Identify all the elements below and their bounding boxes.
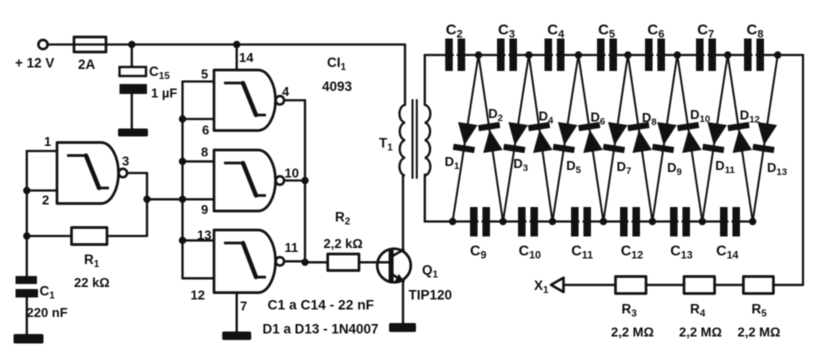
op-amp U1a oscillator NAND gate xyxy=(57,143,118,204)
resistor R2 xyxy=(328,254,359,271)
wire pin 2 xyxy=(27,189,57,191)
op-amp U1d buffer NAND gate pins 13,12 -> 11 xyxy=(214,230,276,293)
capacitor C15 (electrolytic) xyxy=(120,67,147,76)
wire R3 to R4 xyxy=(646,284,684,286)
capacitor C12 xyxy=(620,207,628,237)
svg-text:8: 8 xyxy=(201,145,208,160)
wire to R2 xyxy=(305,261,328,263)
node osc output branch xyxy=(143,196,150,203)
transformer T1 primary winding xyxy=(399,105,405,176)
resistor R3 xyxy=(616,277,647,294)
transformer T1 core xyxy=(411,100,413,178)
wire right edge vertical xyxy=(802,55,804,285)
diode D6 xyxy=(578,122,604,153)
capacitor C14 xyxy=(720,207,728,237)
svg-text:6: 6 xyxy=(202,123,209,138)
wire rail down to T1 primary xyxy=(404,45,406,106)
node pin13 xyxy=(179,237,186,244)
wire bottom rail segment 1 xyxy=(453,220,478,222)
capacitor C3 xyxy=(497,39,505,72)
wire pin 13 xyxy=(183,239,215,241)
diode D7 xyxy=(603,122,629,153)
svg-text:2A: 2A xyxy=(78,57,96,72)
node pin6 xyxy=(179,115,186,122)
diode D11 xyxy=(702,122,728,153)
wire R4 to R5 xyxy=(715,284,744,286)
wire Q1 collector to T1 xyxy=(402,176,404,250)
wire pin 14 supply xyxy=(236,45,238,71)
svg-text:10: 10 xyxy=(285,166,299,181)
capacitor C11 xyxy=(571,207,579,237)
capacitor C10 xyxy=(518,207,526,237)
ground Q1 xyxy=(389,323,416,332)
diode D9 xyxy=(652,122,678,153)
wire R1 to output node xyxy=(107,235,147,237)
wire top rail segment 1 xyxy=(447,54,453,56)
svg-text:2,2 MΩ: 2,2 MΩ xyxy=(679,325,722,340)
wire diagonal D10 xyxy=(677,55,702,222)
ground C15 xyxy=(118,129,148,137)
svg-text:11: 11 xyxy=(285,240,299,255)
svg-text:4093: 4093 xyxy=(322,79,353,94)
svg-text:5: 5 xyxy=(201,67,208,82)
resistor R4 xyxy=(684,277,715,294)
node bottom 2 xyxy=(499,218,506,225)
wire top rail segment 5 xyxy=(609,54,652,56)
wire outputs joining vertical xyxy=(304,100,306,262)
svg-text:3: 3 xyxy=(122,154,129,169)
wire secondary to C2 xyxy=(425,54,447,56)
node bottom 5 xyxy=(649,218,656,225)
capacitor C1 xyxy=(16,276,38,284)
node pin8 xyxy=(179,158,186,165)
svg-text:+ 12 V: + 12 V xyxy=(15,56,54,71)
wire left feedback bus xyxy=(26,151,28,276)
wire gate1 output xyxy=(127,172,147,174)
node bottom 3 xyxy=(549,218,556,225)
wire diagonal D8 xyxy=(628,55,653,222)
wire diagonal D9 xyxy=(652,55,677,222)
wire buffer input bus xyxy=(181,82,183,279)
svg-text:4: 4 xyxy=(282,84,290,99)
capacitor C4 xyxy=(545,39,553,72)
svg-text:2,2 MΩ: 2,2 MΩ xyxy=(611,325,654,340)
capacitor C9 xyxy=(470,207,478,237)
wire R2 to Q1 base xyxy=(359,261,389,263)
diode D2 xyxy=(478,122,504,153)
wire pin 7 to ground xyxy=(236,293,238,332)
wire top rail segment 7 xyxy=(708,54,751,56)
wire diagonal D4 xyxy=(529,55,553,222)
resistor R1 xyxy=(72,228,108,245)
transistor Q1 TIP120 xyxy=(377,249,411,283)
svg-text:7: 7 xyxy=(240,299,247,314)
wire top rail segment 4 xyxy=(557,54,605,56)
node pin9 xyxy=(179,196,186,203)
svg-text:2,2 MΩ: 2,2 MΩ xyxy=(738,325,781,340)
wire output 4 xyxy=(284,99,305,101)
op-amp U1b buffer NAND gate pins 5,6 -> 4 xyxy=(214,70,275,131)
wire bottom rail segment 3 xyxy=(530,220,578,222)
node top 6 xyxy=(724,51,731,58)
wire diagonal D13 xyxy=(753,55,778,222)
svg-text:1: 1 xyxy=(44,134,51,149)
wire osc output to buffer bus / pin 9 xyxy=(147,198,214,200)
wire pin 12 xyxy=(183,277,215,279)
ground pin 7 xyxy=(222,332,251,341)
wire bottom rail last segment xyxy=(732,220,752,222)
wire diagonal D5 xyxy=(553,55,579,222)
wire pin 1 xyxy=(27,150,57,152)
wire R5 to right edge xyxy=(773,284,803,286)
diode D10 xyxy=(677,122,703,153)
wire bottom rail segment 6 xyxy=(682,220,727,222)
wire bottom rail segment 2 xyxy=(482,220,525,222)
diode D5 xyxy=(553,122,579,153)
wire diagonal D3 xyxy=(503,55,529,222)
ground C1 xyxy=(14,334,44,344)
wire diagonal D2 xyxy=(479,55,504,222)
wire diagonal D12 xyxy=(728,55,753,222)
diode D4 xyxy=(528,122,554,153)
wire pin 8 xyxy=(183,160,215,162)
wire diagonal D6 xyxy=(578,55,603,222)
node output 11 / R2 xyxy=(301,259,308,266)
wire bottom rail segment 5 xyxy=(632,220,677,222)
node X1 output arrow xyxy=(551,278,564,292)
node top 2 xyxy=(525,51,532,58)
wire pin 5 xyxy=(183,80,215,82)
node pin14 xyxy=(233,41,240,48)
svg-text:1 µF: 1 µF xyxy=(151,86,177,101)
node bottom 4 xyxy=(600,218,607,225)
capacitor C7 xyxy=(696,39,704,72)
svg-text:D1 a D13 - 1N4007: D1 a D13 - 1N4007 xyxy=(263,322,379,337)
terminal +12V input xyxy=(38,40,47,49)
diode D8 xyxy=(627,122,653,153)
op-amp U1c buffer NAND gate pins 8,9 -> 10 xyxy=(214,150,275,211)
svg-text:C1 a C14 - 22 nF: C1 a C14 - 22 nF xyxy=(268,298,375,313)
wire output 11 xyxy=(284,260,305,262)
node bottom 1 xyxy=(449,218,456,225)
wire rail to C15 xyxy=(131,45,133,68)
capacitor C6 xyxy=(645,39,653,72)
wire output 10 xyxy=(284,179,305,181)
node R1 left xyxy=(23,232,30,239)
diode D3 xyxy=(503,122,529,153)
svg-text:220 nF: 220 nF xyxy=(27,305,68,320)
wire pin 6 xyxy=(183,118,215,120)
wire bottom rail segment 4 xyxy=(583,220,627,222)
fuse F1 2A xyxy=(74,37,106,52)
wire top rail segment 3 xyxy=(509,54,552,56)
node pin2/bus xyxy=(23,187,30,194)
wire terminal to fuse xyxy=(48,43,74,45)
node top 7 xyxy=(774,51,781,58)
wire output down to R1 xyxy=(146,173,148,236)
node bottom 6 xyxy=(699,218,706,225)
svg-text:9: 9 xyxy=(201,202,208,217)
wire secondary bottom xyxy=(424,175,426,222)
diode D12 xyxy=(727,122,753,153)
node output 10 xyxy=(301,177,308,184)
svg-text:TIP120: TIP120 xyxy=(409,288,453,303)
transformer T1 secondary winding xyxy=(425,105,431,176)
wire secondary top xyxy=(424,55,426,105)
diode D1 xyxy=(453,122,479,153)
svg-text:14: 14 xyxy=(239,50,254,65)
diode D13 xyxy=(752,122,778,153)
node top 5 xyxy=(674,51,681,58)
resistor R5 xyxy=(743,277,773,294)
node top 1 xyxy=(475,51,482,58)
svg-text:2,2 kΩ: 2,2 kΩ xyxy=(324,236,363,251)
wire to R1 xyxy=(27,235,72,237)
capacitor C13 xyxy=(670,207,678,237)
wire top supply rail xyxy=(106,43,405,45)
wire X1 to R3 xyxy=(564,284,616,286)
wire top rail segment 6 xyxy=(657,54,703,56)
node top 3 xyxy=(575,51,582,58)
wire diagonal D11 xyxy=(702,55,727,222)
svg-text:13: 13 xyxy=(197,228,211,243)
wire Q1 emitter to ground xyxy=(402,282,404,324)
wire C1 to ground xyxy=(26,298,28,335)
wire diagonal D1 xyxy=(453,55,479,222)
svg-text:12: 12 xyxy=(191,288,205,303)
capacitor C2 xyxy=(445,39,453,72)
wire secondary to bottom rail xyxy=(425,220,453,222)
wire top rail segment 2 xyxy=(458,54,505,56)
svg-text:2: 2 xyxy=(42,193,49,208)
wire C15 to ground xyxy=(131,94,133,129)
svg-text:22 kΩ: 22 kΩ xyxy=(74,275,110,290)
wire top rail to right edge xyxy=(756,54,803,56)
wire diagonal D7 xyxy=(603,55,628,222)
node top 4 xyxy=(624,51,631,58)
capacitor C5 xyxy=(597,39,605,72)
node bottom 7 xyxy=(749,218,756,225)
capacitor C8 xyxy=(744,39,752,72)
node fuse/C15 xyxy=(128,41,135,48)
